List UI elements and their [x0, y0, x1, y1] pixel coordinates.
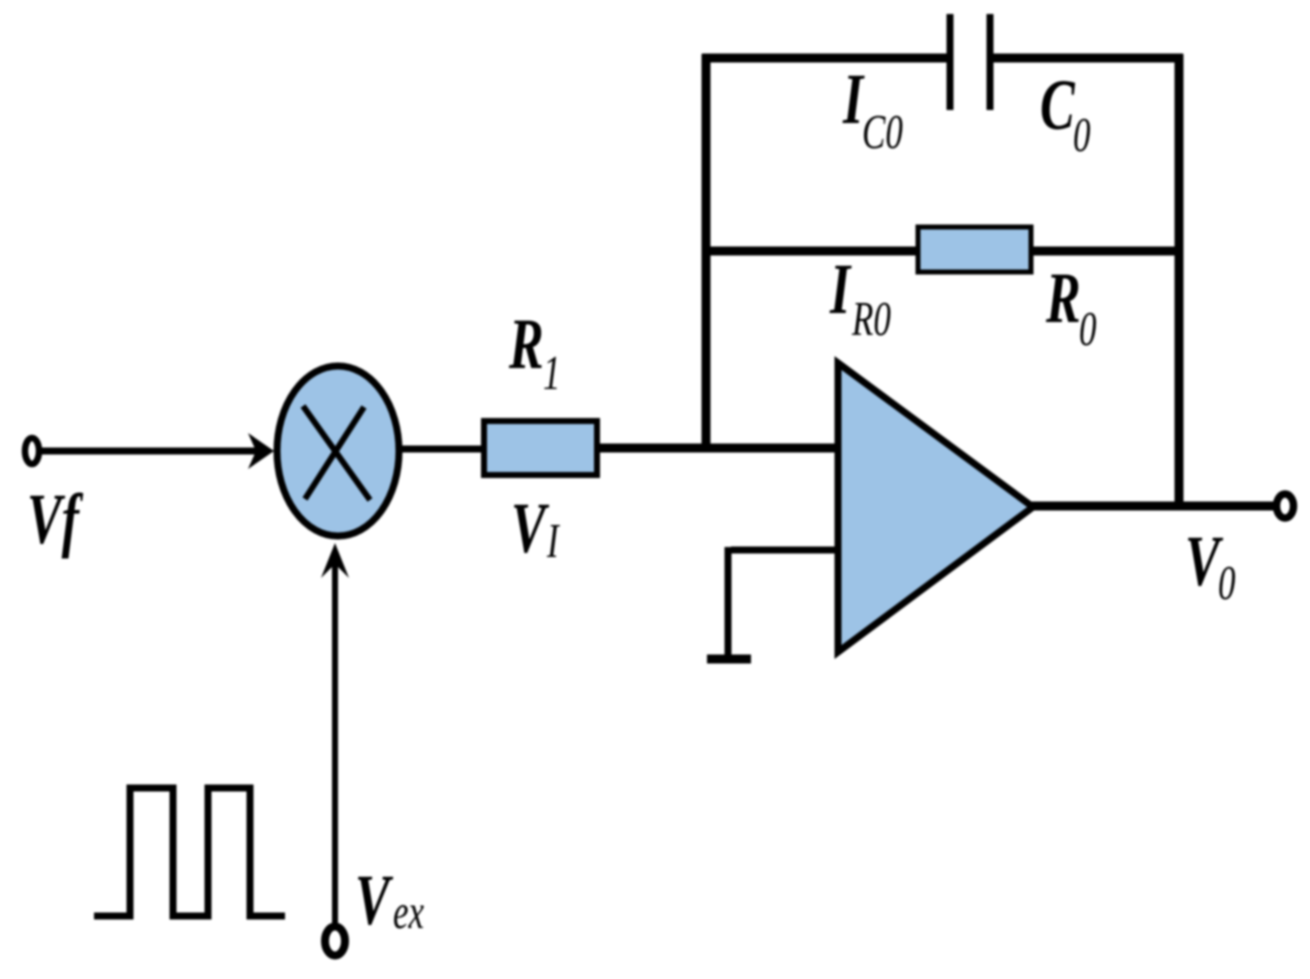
svg-text:I: I — [829, 249, 852, 329]
svg-text:C0: C0 — [862, 106, 903, 160]
wire: non-inverting input — [728, 547, 840, 658]
multiplier (mixer) — [277, 366, 399, 536]
svg-text:R0: R0 — [851, 293, 891, 347]
wire: op-amp output — [1030, 502, 1279, 511]
svg-text:V: V — [511, 488, 550, 568]
svg-text:0: 0 — [1218, 557, 1235, 611]
input terminal Vf — [25, 438, 39, 464]
op-amp U1 — [838, 363, 1033, 652]
capacitor C0 — [950, 14, 990, 110]
svg-text:0: 0 — [1073, 109, 1090, 163]
wire: top feedback branch left segment — [702, 54, 947, 63]
svg-text:C: C — [1040, 65, 1076, 145]
wire: Vex vertical with arrow into multiplier — [321, 543, 349, 925]
wire: multiplier output to R1 — [399, 446, 488, 453]
svg-text:ex: ex — [393, 886, 424, 940]
wire: middle feedback branch right segment — [1029, 247, 1183, 256]
resistor R1 — [484, 421, 597, 475]
ground — [707, 655, 751, 664]
wire: input with arrow into multiplier — [40, 433, 274, 469]
resistor R0 — [918, 227, 1031, 272]
square wave symbol — [94, 788, 285, 916]
svg-text:Vf: Vf — [27, 479, 84, 559]
svg-text:V: V — [355, 860, 394, 940]
svg-text:R: R — [1045, 258, 1081, 338]
svg-text:1: 1 — [543, 347, 560, 401]
terminal Vex — [325, 927, 345, 956]
svg-text:0: 0 — [1079, 303, 1096, 357]
wire: top feedback branch right segment — [993, 54, 1183, 63]
svg-text:I: I — [546, 515, 560, 569]
wire: middle feedback branch left segment — [702, 247, 920, 256]
wire: feedback right vertical — [1175, 54, 1184, 508]
wire: R1 to op-amp inverting input — [595, 444, 840, 453]
wire: feedback left vertical — [702, 54, 711, 452]
output terminal Vo — [1277, 494, 1294, 518]
svg-text:R: R — [508, 304, 544, 384]
